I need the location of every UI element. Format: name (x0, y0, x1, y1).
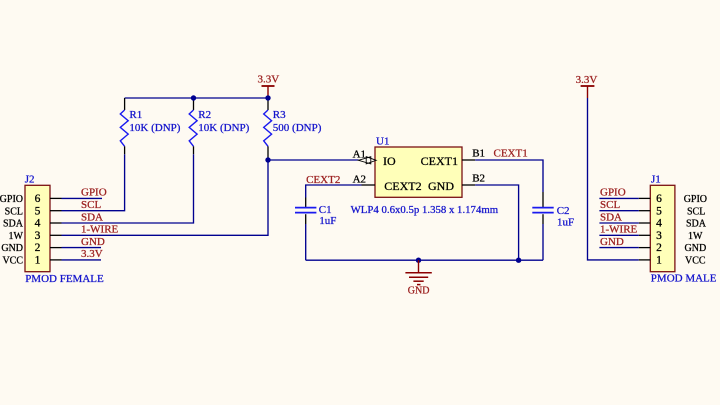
svg-text:10K (DNP): 10K (DNP) (129, 122, 180, 134)
svg-text:SDA: SDA (686, 219, 707, 230)
U1 pin A1 bidirectional marker (358, 157, 376, 164)
svg-text:PMOD MALE: PMOD MALE (651, 272, 717, 284)
svg-text:1uF: 1uF (557, 216, 574, 228)
svg-text:1-WIRE: 1-WIRE (81, 224, 119, 236)
svg-text:SCL: SCL (5, 206, 23, 217)
wire SCL from J2.5 to R1 (62, 154, 125, 211)
J2 pin 1 stub (50, 259, 62, 261)
resistor R2 (189, 98, 197, 154)
svg-text:VCC: VCC (685, 256, 706, 267)
wire GPIO to J1.6 (599, 197, 638, 199)
wire SDA from J2.4 to R2 (62, 154, 194, 223)
svg-text:GPIO: GPIO (81, 187, 107, 199)
J2 pin 2 stub (50, 247, 62, 249)
wire C1 to bottom rail (305, 224, 307, 260)
wire B2 to bottom rail (475, 185, 518, 260)
svg-text:GPIO: GPIO (684, 194, 707, 205)
svg-text:1: 1 (35, 255, 41, 267)
J1 pin 6 stub (639, 197, 651, 199)
wire GPIO from J2.6 (62, 197, 103, 199)
svg-text:3: 3 (656, 230, 662, 242)
resistor R3 (264, 98, 272, 160)
wire 3.3V to J1.1 (588, 98, 639, 260)
svg-text:WLP4 0.6x0.5p 1.358 x 1.174mm: WLP4 0.6x0.5p 1.358 x 1.174mm (351, 204, 499, 216)
svg-text:J2: J2 (25, 174, 35, 186)
junction B2 on rail (516, 258, 521, 263)
capacitor C1 (295, 198, 316, 225)
svg-text:SCL: SCL (687, 206, 705, 217)
svg-text:B1: B1 (472, 147, 485, 159)
svg-text:GND: GND (428, 179, 454, 193)
svg-text:2: 2 (35, 242, 41, 254)
J2 pin 5 stub (50, 210, 62, 212)
junction R2 top (191, 95, 196, 100)
resistor R1 (120, 98, 128, 154)
J1 pin 5 stub (639, 210, 651, 212)
svg-text:R3: R3 (273, 109, 286, 121)
svg-text:GND: GND (81, 236, 105, 248)
wire GND from J2.2 (62, 247, 102, 249)
wire 3.3V from J2.1 (62, 259, 102, 261)
svg-text:GND: GND (685, 243, 707, 254)
capacitor C2 (532, 192, 553, 224)
J1 pin 1 stub (639, 259, 651, 261)
svg-text:GND: GND (600, 236, 624, 248)
power port 3.3V (right) (581, 86, 595, 98)
svg-text:R2: R2 (198, 109, 211, 121)
svg-text:3: 3 (35, 230, 41, 242)
svg-text:1W: 1W (688, 231, 703, 242)
connector J2 body (25, 185, 50, 271)
svg-text:1-WIRE: 1-WIRE (600, 224, 638, 236)
wire B1 to C2 (CEXT1 net) (475, 160, 543, 192)
J1 pin 3 stub (639, 234, 651, 236)
wire 1-WIRE to J1.3 (599, 234, 638, 236)
svg-text:CEXT1: CEXT1 (421, 154, 458, 168)
junction R3 top / power (265, 95, 270, 100)
svg-text:SDA: SDA (81, 211, 103, 223)
svg-text:1: 1 (656, 255, 662, 267)
svg-text:3.3V: 3.3V (576, 74, 598, 86)
U1 pin A2 stub (362, 184, 376, 186)
U1 pin B1 stub (462, 159, 475, 161)
wire IO node to U1.A1 (268, 159, 359, 161)
connector J1 body (650, 185, 675, 271)
op IC U1 body (375, 147, 462, 197)
wire bottom ground rail (306, 259, 543, 261)
wire GND to J1.2 (599, 247, 638, 249)
svg-text:CEXT2: CEXT2 (384, 179, 421, 193)
svg-text:CEXT1: CEXT1 (494, 147, 528, 159)
svg-text:SDA: SDA (600, 211, 622, 223)
wire 1-WIRE from J2.3 to R3/IO node (62, 160, 269, 235)
U1 pin B2 stub (462, 184, 475, 186)
svg-text:4: 4 (35, 218, 41, 230)
svg-text:GND: GND (1, 243, 23, 254)
svg-text:VCC: VCC (2, 256, 23, 267)
svg-text:GPIO: GPIO (0, 194, 23, 205)
svg-text:C1: C1 (319, 204, 332, 216)
svg-text:R1: R1 (129, 109, 142, 121)
svg-text:GPIO: GPIO (600, 187, 626, 199)
svg-text:CEXT2: CEXT2 (306, 174, 340, 186)
svg-text:PMOD FEMALE: PMOD FEMALE (25, 273, 104, 285)
svg-text:A2: A2 (353, 174, 366, 186)
svg-text:1uF: 1uF (319, 215, 336, 227)
svg-text:6: 6 (656, 193, 662, 205)
J2 pin 4 stub (50, 222, 62, 224)
wire 3.3V top rail (125, 97, 268, 99)
wire SDA to J1.4 (599, 222, 638, 224)
wire SCL to J1.5 (599, 210, 638, 212)
junction GND tap (416, 258, 421, 263)
svg-text:5: 5 (656, 205, 662, 217)
svg-text:SDA: SDA (3, 219, 24, 230)
svg-text:U1: U1 (376, 136, 389, 148)
ground symbol (405, 260, 431, 284)
svg-text:SCL: SCL (600, 199, 620, 211)
J1 pin 2 stub (639, 247, 651, 249)
junction node IO / R3 bottom (265, 157, 270, 162)
svg-text:C2: C2 (557, 205, 570, 217)
svg-text:SCL: SCL (81, 199, 101, 211)
J2 pin 3 stub (50, 234, 62, 236)
svg-text:3.3V: 3.3V (258, 74, 280, 86)
svg-text:6: 6 (35, 193, 41, 205)
svg-text:500 (DNP): 500 (DNP) (273, 122, 322, 134)
svg-text:10K (DNP): 10K (DNP) (198, 122, 249, 134)
svg-text:A1: A1 (353, 148, 366, 160)
J1 pin 4 stub (639, 222, 651, 224)
svg-text:GND: GND (408, 286, 430, 297)
svg-text:3.3V: 3.3V (81, 248, 103, 260)
svg-text:B2: B2 (472, 172, 485, 184)
J2 pin 6 stub (50, 197, 62, 199)
wire C2 to bottom rail (542, 224, 544, 260)
wire CEXT2 net (A2 to C1) (306, 185, 362, 198)
svg-text:IO: IO (383, 154, 396, 168)
svg-text:5: 5 (35, 205, 41, 217)
svg-text:4: 4 (656, 218, 662, 230)
svg-text:J1: J1 (651, 174, 661, 186)
svg-text:1W: 1W (9, 231, 24, 242)
power port 3.3V (left) (262, 86, 275, 98)
svg-text:2: 2 (656, 242, 662, 254)
